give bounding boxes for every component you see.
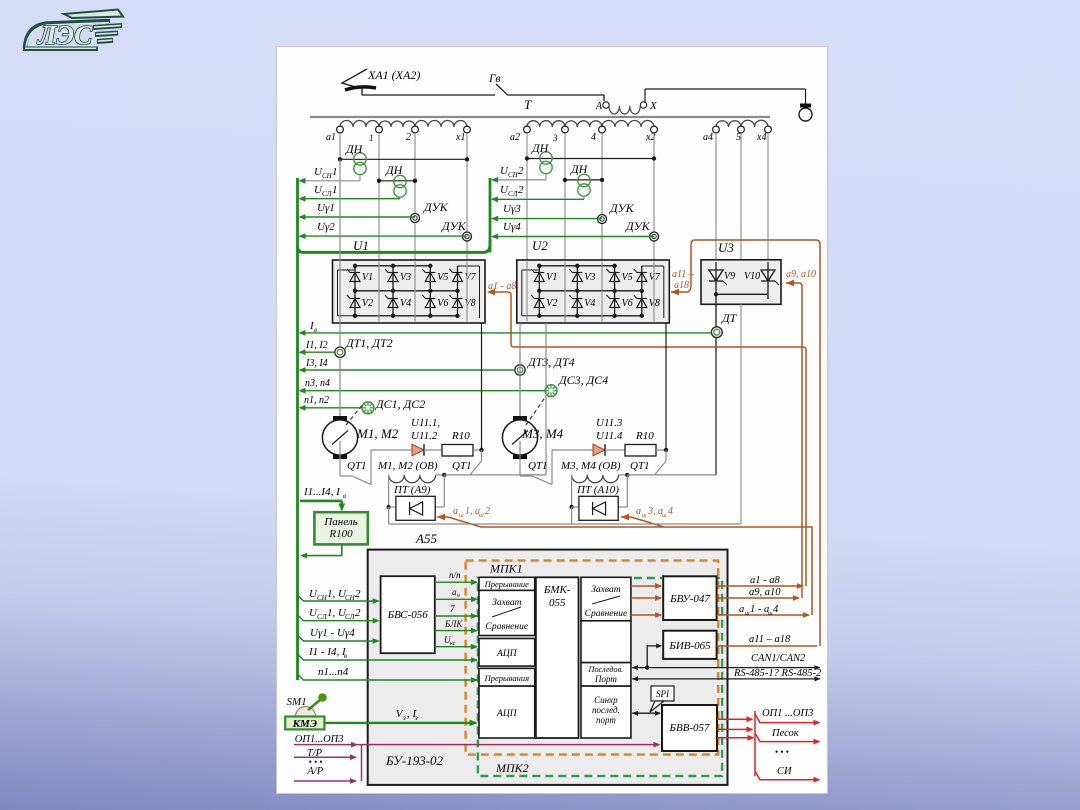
svg-text:V10: V10 <box>744 271 760 282</box>
svg-text:a1: a1 <box>326 132 336 143</box>
svg-text:1, U: 1, U <box>327 588 347 600</box>
svg-text:055: 055 <box>549 597 566 609</box>
svg-text:ДН: ДН <box>570 162 589 176</box>
svg-text:2: 2 <box>518 184 524 196</box>
svg-text:V3: V3 <box>584 272 595 283</box>
svg-text:а: а <box>739 604 744 615</box>
svg-text:M3, M4: M3, M4 <box>521 426 564 441</box>
svg-text:V1: V1 <box>362 272 373 283</box>
svg-text:I3, I4: I3, I4 <box>305 358 328 369</box>
svg-text:ПТ (А10): ПТ (А10) <box>576 484 619 496</box>
svg-text:2: 2 <box>355 607 361 619</box>
svg-text:U11.1,: U11.1, <box>411 417 440 429</box>
svg-text:послед.: послед. <box>592 705 620 715</box>
svg-text:a2: a2 <box>510 132 520 143</box>
svg-text:о: о <box>457 593 460 599</box>
svg-text:ДУК: ДУК <box>441 219 467 233</box>
svg-text:БИВ-065: БИВ-065 <box>668 640 711 652</box>
svg-text:Прерывание: Прерывание <box>484 579 530 589</box>
svg-text:Песок: Песок <box>771 728 799 739</box>
svg-text:порт: порт <box>596 715 616 725</box>
svg-text:1, а: 1, а <box>465 506 480 517</box>
svg-text:2: 2 <box>485 506 490 517</box>
svg-text:Uγ1: Uγ1 <box>317 202 335 214</box>
svg-text:2: 2 <box>406 132 411 143</box>
svg-text:в: в <box>343 492 346 500</box>
svg-text:кс: кс <box>450 641 456 647</box>
svg-text:Uγ4: Uγ4 <box>503 221 521 233</box>
svg-text:Сравнение: Сравнение <box>486 622 529 632</box>
svg-text:БМК-: БМК- <box>543 584 571 596</box>
svg-text:QT1: QT1 <box>528 460 548 472</box>
svg-text:RS-485-1? RS-485-2: RS-485-1? RS-485-2 <box>733 668 822 679</box>
svg-text:1: 1 <box>369 133 374 143</box>
svg-text:ДУК: ДУК <box>625 219 651 233</box>
svg-text:Uγ3: Uγ3 <box>503 203 521 215</box>
svg-text:1 - а: 1 - а <box>750 604 769 615</box>
svg-text:V9: V9 <box>724 271 735 282</box>
svg-text:АЦП: АЦП <box>496 649 518 659</box>
svg-text:X: X <box>649 100 658 112</box>
svg-text:a4: a4 <box>703 132 713 143</box>
svg-text:V4: V4 <box>584 298 595 309</box>
svg-text:Uγ2: Uγ2 <box>317 221 335 233</box>
svg-text:1: 1 <box>332 166 338 178</box>
svg-text:4: 4 <box>773 604 779 615</box>
svg-text:U1: U1 <box>353 238 369 253</box>
svg-text:V5: V5 <box>622 272 633 283</box>
svg-text:Гв: Гв <box>488 71 501 85</box>
svg-text:КМЭ: КМЭ <box>292 718 317 730</box>
svg-text:U2: U2 <box>532 238 548 253</box>
svg-text:V8: V8 <box>465 298 476 309</box>
svg-text:А/Р: А/Р <box>306 766 323 777</box>
svg-text:БВУ-047: БВУ-047 <box>669 593 710 605</box>
svg-text:ЛЭС: ЛЭС <box>37 20 93 50</box>
svg-text:ш: ш <box>459 513 464 519</box>
svg-text:Захват: Захват <box>492 598 521 608</box>
svg-text:Порт: Порт <box>594 674 617 684</box>
svg-text:ДТ: ДТ <box>721 311 738 325</box>
svg-text:5: 5 <box>736 132 741 143</box>
svg-text:2: 2 <box>518 165 524 177</box>
svg-text:в: в <box>314 326 317 334</box>
svg-text:а18: а18 <box>674 280 689 291</box>
svg-text:Захват: Захват <box>591 585 620 595</box>
svg-text:1, U: 1, U <box>327 607 347 619</box>
svg-text:V2: V2 <box>546 298 557 309</box>
svg-text:x4: x4 <box>756 132 766 143</box>
svg-text:• • •: • • • <box>775 747 789 757</box>
svg-text:n1, n2: n1, n2 <box>304 395 329 406</box>
svg-text:ш: ш <box>642 513 647 519</box>
svg-text:T: T <box>524 97 532 112</box>
svg-text:з: з <box>402 714 406 722</box>
svg-text:ДН: ДН <box>385 163 404 177</box>
svg-text:V7: V7 <box>649 272 661 283</box>
svg-text:I1 - I4, I: I1 - I4, I <box>308 646 347 658</box>
svg-text:ОП1 ...ОП3: ОП1 ...ОП3 <box>762 708 813 719</box>
svg-text:V4: V4 <box>400 298 411 309</box>
svg-text:АЦП: АЦП <box>496 709 518 719</box>
svg-text:ДТ1, ДТ2: ДТ1, ДТ2 <box>345 336 393 350</box>
svg-text:QT1: QT1 <box>452 460 472 472</box>
svg-text:XA1 (XA2): XA1 (XA2) <box>367 68 420 82</box>
svg-text:ДУК: ДУК <box>423 200 449 214</box>
svg-text:БУ-193-02: БУ-193-02 <box>385 753 444 768</box>
svg-text:а1 - а8: а1 - а8 <box>750 575 780 586</box>
svg-text:ДС3, ДС4: ДС3, ДС4 <box>558 373 608 387</box>
svg-text:а11 – а18: а11 – а18 <box>749 634 791 645</box>
svg-text:ДУК: ДУК <box>609 201 635 215</box>
svg-text:БЛК: БЛК <box>444 619 463 629</box>
svg-text:ПТ (А9): ПТ (А9) <box>393 484 431 496</box>
svg-text:Последов.: Последов. <box>588 665 624 674</box>
svg-text:в: в <box>344 652 347 660</box>
svg-text:МПК2: МПК2 <box>495 761 529 775</box>
svg-text:А55: А55 <box>415 531 437 546</box>
svg-text:U11.4: U11.4 <box>596 430 623 442</box>
svg-text:V6: V6 <box>437 298 448 309</box>
svg-text:A: A <box>595 101 603 112</box>
svg-text:x1: x1 <box>455 132 465 143</box>
svg-text:V2: V2 <box>362 298 373 309</box>
svg-text:МПК1: МПК1 <box>489 562 523 576</box>
svg-text:M3, M4 (ОВ): M3, M4 (ОВ) <box>560 460 621 472</box>
svg-text:а9, а10: а9, а10 <box>749 587 781 598</box>
svg-text:V7: V7 <box>465 272 477 283</box>
svg-text:2: 2 <box>355 588 361 600</box>
svg-text:ДН: ДН <box>345 142 364 156</box>
svg-text:QT1: QT1 <box>630 460 650 472</box>
svg-text:ДН: ДН <box>531 141 550 155</box>
svg-text:n3, n4: n3, n4 <box>305 378 330 389</box>
svg-text:Панель: Панель <box>323 516 357 528</box>
svg-text:а: а <box>453 506 458 517</box>
svg-text:а: а <box>636 506 641 517</box>
svg-text:3, а: 3, а <box>647 506 663 517</box>
svg-text:n/n: n/n <box>449 570 461 580</box>
svg-text:Uγ1 - Uγ4: Uγ1 - Uγ4 <box>310 627 355 639</box>
svg-text:U3: U3 <box>718 240 734 255</box>
svg-text:M1, M2: M1, M2 <box>356 426 399 441</box>
svg-text:V3: V3 <box>400 272 411 283</box>
svg-text:ДС1, ДС2: ДС1, ДС2 <box>375 397 425 411</box>
svg-text:ДТ3, ДТ4: ДТ3, ДТ4 <box>527 355 575 369</box>
svg-text:ш: ш <box>662 513 667 519</box>
svg-text:R10: R10 <box>635 430 654 442</box>
svg-text:R10: R10 <box>451 430 470 442</box>
svg-text:M1, M2 (ОВ): M1, M2 (ОВ) <box>377 460 438 472</box>
svg-text:СИ: СИ <box>777 766 793 777</box>
svg-text:n1...n4: n1...n4 <box>318 666 349 678</box>
svg-text:ОП1...ОП3: ОП1...ОП3 <box>295 734 344 745</box>
svg-text:SPI: SPI <box>656 689 670 699</box>
svg-text:7: 7 <box>450 604 455 614</box>
svg-text:V6: V6 <box>622 298 633 309</box>
svg-text:4: 4 <box>668 506 673 517</box>
svg-text:QT1: QT1 <box>347 460 367 472</box>
svg-text:I1...I4, I: I1...I4, I <box>303 486 341 498</box>
svg-text:Синхр: Синхр <box>594 695 618 705</box>
svg-text:I1, I2: I1, I2 <box>305 340 328 351</box>
svg-text:R100: R100 <box>328 528 353 540</box>
svg-text:Прерывания: Прерывания <box>484 673 530 683</box>
svg-text:з: з <box>414 714 418 722</box>
svg-text:БВВ-057: БВВ-057 <box>668 722 710 734</box>
svg-text:БВС-056: БВС-056 <box>387 609 429 621</box>
svg-text:U11.2: U11.2 <box>411 430 438 442</box>
svg-text:CAN1/CAN2: CAN1/CAN2 <box>751 653 806 664</box>
svg-text:3: 3 <box>552 133 558 143</box>
svg-text:Сравнение: Сравнение <box>585 609 628 619</box>
svg-text:1: 1 <box>332 184 338 196</box>
svg-text:а1 - а8: а1 - а8 <box>488 281 516 292</box>
svg-text:ш: ш <box>479 513 484 519</box>
svg-text:4: 4 <box>591 132 596 143</box>
svg-text:а9, а10: а9, а10 <box>786 269 816 280</box>
svg-text:V5: V5 <box>437 272 448 283</box>
svg-text:U11.3: U11.3 <box>596 417 623 429</box>
svg-text:V1: V1 <box>546 272 557 283</box>
